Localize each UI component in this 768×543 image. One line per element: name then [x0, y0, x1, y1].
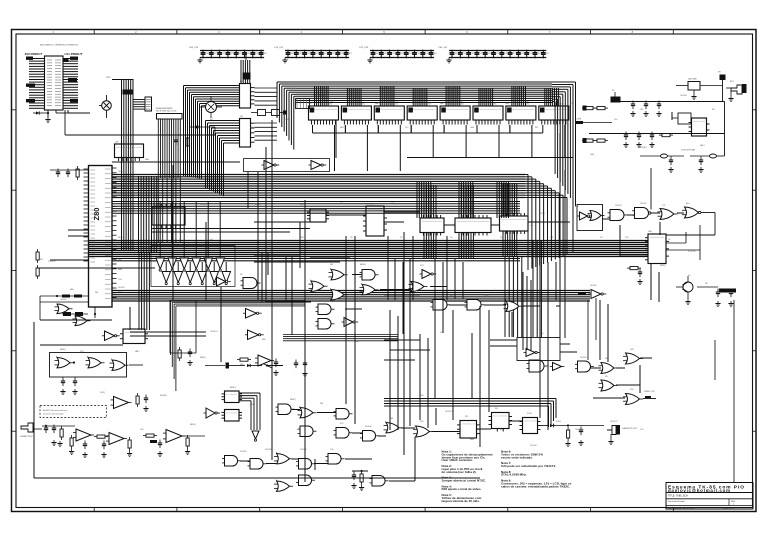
logic gate [274, 481, 293, 492]
svg-text:A15: A15 [450, 294, 453, 297]
svg-text:cabos de cassete: entrada/said: cabos de cassete: entrada/saida padrao T… [501, 484, 570, 488]
svg-text:U20: U20 [430, 214, 433, 216]
svg-text:107: 107 [264, 53, 267, 55]
svg-text:LCD_MODULE: LCD_MODULE [313, 95, 327, 97]
svg-text:C30_C41: C30_C41 [438, 47, 448, 49]
svg-text:103: 103 [401, 53, 404, 55]
timer U31 [120, 329, 148, 344]
svg-text:D6: D6 [240, 274, 242, 276]
wire sync feedback [666, 213, 715, 236]
wire right rails [700, 225, 734, 482]
wire feedback [575, 119, 612, 125]
wire PIO out [666, 232, 700, 253]
svg-text:KB_ROWS_KB_COLS: KB_ROWS_KB_COLS [156, 111, 177, 113]
svg-text:C20: C20 [250, 404, 253, 406]
address bus A0-A15 [112, 175, 567, 271]
net labels extra [48, 95, 716, 447]
svg-text:IORQ: IORQ [484, 295, 489, 297]
inverter U12A [214, 277, 231, 286]
logic gate [360, 431, 379, 442]
connector J5 cassette in [20, 423, 42, 438]
svg-text:CASSETTE OUT: CASSETTE OUT [622, 427, 638, 430]
svg-text:J02 PINOUT: J02 PINOUT [25, 52, 43, 56]
wire osc rail [589, 102, 725, 157]
svg-text:U15: U15 [493, 104, 496, 106]
svg-text:IORQ: IORQ [100, 392, 105, 394]
latch U3 74LS373 [240, 116, 278, 147]
svg-text:Date: Saturday, May 10, 2008: Date: Saturday, May 10, 2008 [668, 506, 695, 509]
diode D3 and filter [538, 424, 605, 447]
svg-text:U19: U19 [625, 237, 628, 239]
decoder U6 74LS138 [363, 204, 387, 237]
svg-text:U14: U14 [460, 104, 463, 106]
svg-text:R29: R29 [420, 421, 423, 423]
op-amp U34A [69, 429, 94, 457]
wire video out [643, 391, 656, 399]
op-amp U34B [94, 433, 132, 458]
svg-text:XTAL 6.5536 MHz.: XTAL 6.5536 MHz. [501, 473, 527, 477]
op-amp U34D [235, 355, 279, 375]
svg-text:D29: D29 [80, 351, 83, 353]
svg-text:106: 106 [425, 53, 428, 55]
svg-text:C06_C13: C06_C13 [189, 47, 199, 49]
wire verticals [130, 112, 672, 482]
svg-text:BUSRQ: BUSRQ [640, 147, 647, 149]
wire +5V rail [611, 101, 725, 103]
transistor Q3 [99, 95, 111, 118]
svg-text:NMI: NMI [240, 364, 244, 366]
svg-text:U10: U10 [329, 104, 332, 106]
power node 9V [718, 72, 726, 81]
svg-text:Document Number:: Document Number: [668, 500, 686, 503]
svg-text:C22_C29: C22_C29 [359, 47, 369, 49]
reset wires [40, 295, 89, 321]
svg-text:107: 107 [349, 53, 352, 55]
svg-text:MREQ: MREQ [660, 265, 666, 267]
svg-text:NMI: NMI [70, 289, 74, 291]
svg-text:D4: D4 [450, 237, 452, 239]
svg-text:74LS32: 74LS32 [240, 451, 247, 453]
decoupling capacitors C22-C29 [359, 47, 437, 63]
gates U29 [55, 304, 91, 326]
svg-text:74LS02: 74LS02 [580, 357, 587, 359]
svg-text:iiiiiiiiiiiiiiiiiiiiiiiiii: iiiiiiiiiiiiiiiiiiiiiiiiii [409, 109, 436, 111]
address bus lower nibble [112, 202, 520, 214]
logic gate [222, 456, 241, 467]
inverter U22A [524, 349, 541, 357]
shift register U9 [500, 213, 534, 234]
wire bundle U7 [424, 185, 436, 258]
svg-text:R34: R34 [630, 389, 633, 391]
svg-text:74LS02: 74LS02 [640, 203, 647, 205]
RAM U11 [341, 88, 378, 171]
svg-text:MREQ: MREQ [190, 424, 196, 426]
gate U22E [599, 363, 618, 374]
logic gate [329, 289, 348, 300]
svg-text:74LS157: 74LS157 [445, 411, 453, 413]
gate U21A [608, 210, 628, 221]
svg-text:IORQ: IORQ [390, 203, 395, 205]
logic U32 gates [50, 353, 144, 378]
logic gate [360, 270, 379, 281]
FF wire mesh [239, 393, 260, 430]
svg-text:ALE/EXT all traces thickness: ALE/EXT all traces thickness [43, 409, 67, 412]
gate U23A [413, 426, 433, 437]
svg-text:74LS32: 74LS32 [300, 449, 307, 451]
svg-text:TO LCD: TO LCD [688, 251, 696, 253]
wire horizontals [40, 162, 684, 481]
notes column 1 [442, 450, 493, 503]
svg-text:107: 107 [513, 53, 516, 55]
gate IC U5 [307, 209, 329, 222]
svg-text:iiiiiiiiiiiiiiiiiiiiiiiiii: iiiiiiiiiiiiiiiiiiiiiiiiii [475, 109, 502, 111]
svg-text:U20 7805: U20 7805 [688, 79, 698, 81]
shift register U8 [455, 215, 491, 236]
svg-text:A14: A14 [300, 203, 303, 206]
svg-text:102: 102 [222, 53, 225, 55]
svg-text:74LS157: 74LS157 [575, 429, 583, 431]
svg-text:LOW CRYSTAL: LOW CRYSTAL [681, 149, 696, 152]
svg-text:111: 111 [546, 53, 549, 55]
title block [666, 483, 753, 510]
RC network [351, 470, 368, 491]
svg-text:C37: C37 [662, 205, 665, 207]
flip-flop U25 [489, 413, 513, 432]
caps C11 C12 [294, 360, 308, 377]
wire bundle to latch [241, 52, 251, 83]
svg-text:104: 104 [409, 53, 412, 55]
decoupling capacitors C6-C13 [189, 47, 267, 63]
label L01 PINOUT [65, 52, 83, 56]
ROM U4 [152, 204, 310, 232]
decoupling capacitors C14-C21 [274, 47, 352, 63]
logic gate [248, 459, 267, 470]
svg-text:iiiiiiiiiiiiiiiiiiiiiiiiii: iiiiiiiiiiiiiiiiiiiiiiiiii [376, 109, 403, 111]
diode D2 network [205, 363, 272, 369]
input RC filter [42, 425, 75, 447]
CPU support parts [50, 166, 89, 180]
svg-text:IORQ: IORQ [556, 421, 561, 423]
svg-text:MREQ: MREQ [118, 237, 124, 239]
svg-text:exceto onde indicado.: exceto onde indicado. [501, 455, 533, 459]
svg-text:U11: U11 [361, 104, 364, 106]
svg-text:iiiiiiiiiiiiiiiiiiiiiiiiiiiii: iiiiiiiiiiiiiiiiiiiiiiiiiiiii [154, 210, 184, 212]
svg-text:R7: R7 [570, 103, 572, 105]
op-amp U34C [143, 430, 205, 457]
resistor R4 [659, 134, 673, 137]
gate U14C [431, 300, 451, 311]
svg-text:100: 100 [376, 53, 379, 55]
logic gate [276, 404, 295, 415]
gate U21D [682, 207, 704, 218]
transistor Q1 [200, 96, 222, 118]
logic gate [298, 407, 317, 418]
net labels [60, 161, 708, 453]
svg-text:105: 105 [332, 53, 335, 55]
svg-text:iiiiiiiiiiiiiiiiiiiiiiii: iiiiiiiiiiiiiiiiiiiiiiii [502, 219, 527, 221]
svg-text:C14_C21: C14_C21 [274, 47, 284, 49]
gate U14E [504, 301, 523, 312]
wire bundle to mixer [505, 240, 659, 337]
RAM U13 [407, 88, 444, 158]
ram control drop [459, 181, 473, 218]
svg-text:U35: U35 [115, 142, 118, 144]
svg-text:A10: A10 [686, 202, 689, 205]
svg-text:Sheet 1 of 1: Sheet 1 of 1 [723, 506, 735, 509]
svg-text:BUSRQ: BUSRQ [160, 395, 167, 397]
svg-text:iiiiiiiiiiiiii: iiiiiiiiiiiiii [368, 209, 383, 211]
svg-text:109: 109 [529, 53, 532, 55]
svg-text:103: 103 [480, 53, 483, 55]
svg-text:+C: +C [530, 225, 533, 227]
svg-text:102: 102 [307, 53, 310, 55]
IC U35 [115, 142, 144, 162]
svg-text:103: 103 [231, 53, 234, 55]
logic gate [296, 459, 315, 470]
svg-text:PWR: PWR [106, 77, 111, 79]
gate U12B [241, 278, 261, 289]
output filter [697, 287, 736, 306]
voltage regulator U20 [676, 79, 723, 102]
gate U22H [623, 394, 643, 405]
svg-text:74LS32: 74LS32 [615, 205, 622, 207]
svg-text:74LS32: 74LS32 [505, 212, 512, 214]
svg-text:MREQ: MREQ [360, 264, 366, 266]
svg-text:102: 102 [471, 53, 474, 55]
svg-text:iiiiiiiiii: iiiiiiiiii [227, 394, 238, 396]
caps C8 C9 [60, 378, 77, 395]
svg-text:110: 110 [538, 53, 541, 55]
svg-text:105: 105 [496, 53, 499, 55]
svg-text:74LS138: 74LS138 [366, 204, 375, 206]
RAM U16 [506, 86, 543, 158]
inverter U16 [578, 290, 606, 299]
logic gate [316, 304, 335, 315]
svg-text:104: 104 [488, 53, 491, 55]
svg-text:D4: D4 [210, 239, 212, 241]
wire bundle mid [283, 300, 398, 341]
svg-text:74LS00: 74LS00 [680, 95, 687, 97]
svg-text:R40: R40 [300, 237, 303, 239]
logic gate [316, 319, 335, 330]
svg-text:D2: D2 [688, 275, 690, 277]
CPU U1 Z80 [84, 166, 117, 308]
capacitors C5-C7 [623, 132, 654, 148]
keyboard diode-driver array [151, 202, 235, 287]
svg-text:C12: C12 [405, 127, 408, 129]
svg-text:108: 108 [521, 53, 524, 55]
svg-text:R15: R15 [465, 416, 468, 418]
svg-text:C40: C40 [330, 449, 333, 451]
inverter U30 [102, 331, 120, 341]
logic gate [298, 426, 317, 437]
logic gate [326, 454, 345, 465]
gate U22D [575, 361, 594, 372]
svg-text:U16: U16 [526, 104, 529, 106]
keyboard ribbon connector [156, 107, 182, 243]
svg-text:100: 100 [455, 53, 458, 55]
svg-text:101: 101 [463, 53, 466, 55]
svg-text:iiiiiiiiiiiiiiiiiiiiiiiiiiiiii: iiiiiiiiiiiiiiiiiiiiiiiiiiiiiiii [457, 221, 490, 223]
wire loop inner [170, 300, 196, 353]
wire loop outer [34, 306, 480, 478]
svg-text:iiiiiiiiiiiii: iiiiiiiiiiiii [493, 416, 507, 418]
svg-text:D7: D7 [400, 237, 402, 239]
svg-text:iiiiiiiiiiiiiiiiiiiiiiiiii: iiiiiiiiiiiiiiiiiiiiiiiiii [343, 109, 370, 111]
svg-text:iiiiiiiiiii: iiiiiiiiiii [694, 121, 706, 123]
svg-text:iiiiiiiiiiii: iiiiiiiiiiii [462, 424, 475, 426]
data bus D0-D7 [89, 241, 649, 261]
svg-text:R23 ajusta o nivel de video.: R23 ajusta o nivel de video. [442, 487, 482, 491]
svg-text:Usar 100nF ceramico.: Usar 100nF ceramico. [442, 458, 474, 462]
logic gate [334, 409, 353, 420]
video mixer gates [577, 205, 605, 231]
svg-text:iiiiiiiiiiiiiiiiiiiiiiiiii: iiiiiiiiiiiiiiiiiiiiiiiiii [442, 109, 469, 111]
notes column 2 [501, 450, 572, 489]
svg-text:74LS02: 74LS02 [365, 426, 372, 428]
logic gate [329, 269, 348, 280]
svg-text:R40: R40 [420, 395, 423, 397]
svg-text:103: 103 [316, 53, 319, 55]
svg-text:105: 105 [417, 53, 420, 55]
RAM U10 [309, 86, 346, 171]
inverter U15A [243, 309, 262, 319]
battery BT1 [726, 81, 747, 101]
svg-text:104: 104 [324, 53, 327, 55]
gate U22G [623, 353, 643, 364]
resistors R5 R6 [582, 138, 608, 143]
svg-text:C34: C34 [118, 279, 121, 281]
svg-text:U28: U28 [630, 349, 633, 351]
transistor Q2 [676, 276, 693, 304]
svg-text:CASSETTE IN: CASSETTE IN [20, 435, 33, 438]
svg-text:U17: U17 [559, 104, 562, 106]
edge connector J1 [26, 56, 78, 110]
svg-text:107: 107 [434, 53, 437, 55]
op-amp U33 [111, 393, 149, 411]
resistors R2 R3 [582, 106, 608, 111]
svg-text:IORQ: IORQ [540, 213, 545, 215]
label J02 PINOUT [25, 52, 43, 56]
PIO support parts [620, 239, 671, 284]
wire bundle lower [384, 399, 556, 428]
address fan-out to latches [184, 86, 240, 197]
svg-text:NMI: NMI [118, 259, 122, 261]
capacitors C2-C4 [630, 101, 661, 117]
svg-text:R13: R13 [340, 423, 343, 425]
svg-text:U24 pode ser substituido por 7: U24 pode ser substituido por 74HC74. [501, 464, 556, 468]
svg-text:MREQ: MREQ [230, 387, 236, 389]
RC parts [178, 347, 193, 365]
svg-text:TITLE: TK85_SCH: TITLE: TK85_SCH [668, 495, 688, 498]
svg-text:102: 102 [392, 53, 395, 55]
wire video return [37, 110, 215, 268]
svg-text:REV:: REV: [731, 501, 736, 503]
gate U28B [252, 431, 259, 441]
svg-text:101: 101 [214, 53, 217, 55]
svg-text:105: 105 [247, 53, 250, 55]
svg-text:74LS32: 74LS32 [590, 285, 597, 287]
connector J4 cassette [607, 425, 638, 444]
svg-text:106: 106 [255, 53, 258, 55]
svg-text:D3: D3 [350, 237, 352, 239]
svg-text:U12: U12 [394, 104, 397, 106]
flip-flop U24 [457, 421, 480, 439]
logic gate [360, 284, 379, 295]
svg-text:VIDEO OUT: VIDEO OUT [644, 391, 656, 393]
logic gate [309, 281, 328, 292]
svg-text:MREQ: MREQ [465, 214, 471, 216]
RAM select wires [407, 133, 573, 252]
wire bundle U8 [459, 185, 473, 258]
inverter U13 [342, 318, 359, 327]
control bus [112, 291, 590, 302]
svg-text:101: 101 [299, 53, 302, 55]
svg-text:74LS02: 74LS02 [200, 204, 207, 206]
svg-text:74LS32: 74LS32 [118, 287, 125, 289]
memory data-address bus [277, 82, 576, 206]
svg-text:iiiiiiiiiiii: iiiiiiiiiiii [312, 212, 325, 214]
svg-text:iiiiiiiiiiiiiiiiiiiiiiiii: iiiiiiiiiiiiiiiiiiiiiiiii [117, 147, 143, 149]
svg-text:C19: C19 [118, 291, 121, 293]
svg-text:iiiiiiiiiiiiiiiiiiiiiiiiii: iiiiiiiiiiiiiiiiiiiiiiiiii [541, 109, 568, 111]
logic gate [274, 453, 293, 464]
svg-text:74LS02: 74LS02 [265, 449, 272, 451]
svg-text:74LS02: 74LS02 [60, 299, 67, 301]
svg-text:A29: A29 [118, 245, 121, 248]
svg-text:NMI: NMI [340, 127, 344, 129]
wire loop bundle [171, 301, 306, 392]
svg-text:C_FBK: C_FBK [575, 119, 582, 121]
wire clk down [611, 96, 651, 210]
resistors R9 R10 [36, 249, 43, 279]
RAM U14 [440, 86, 477, 158]
svg-text:MREQ: MREQ [290, 399, 296, 401]
connector ground return [33, 110, 68, 122]
svg-text:danjovic@hotmail.com: danjovic@hotmail.com [668, 488, 730, 493]
data wire bundle [139, 176, 157, 252]
svg-text:KB ADDRESSING: KB ADDRESSING [156, 107, 173, 110]
svg-text:104: 104 [239, 53, 242, 55]
latch U2 74LS373 [240, 81, 278, 108]
svg-text:do sistema (ver folha 2).: do sistema (ver folha 2). [442, 470, 477, 474]
svg-text:U13: U13 [500, 237, 503, 239]
inverter U14A [420, 270, 437, 279]
svg-text:MREQ: MREQ [60, 349, 66, 351]
svg-text:iiiiiiiiiiiiiiiiiiiiiiiiii: iiiiiiiiiiiiiiiiiiiiiiiiii [311, 109, 338, 111]
svg-text:106: 106 [504, 53, 507, 55]
crystal X1 [611, 90, 621, 103]
ram control drop [417, 181, 431, 218]
RAM U12 [374, 86, 411, 171]
svg-text:74LS00: 74LS00 [530, 445, 537, 447]
gate U22F [599, 380, 618, 391]
buffer U22C [550, 363, 565, 371]
gate U14D [465, 300, 485, 311]
svg-text:100: 100 [291, 53, 294, 55]
svg-text:74LS32: 74LS32 [118, 171, 125, 173]
svg-text:Jumper aberto p/ cristal NTSC.: Jumper aberto p/ cristal NTSC. [442, 479, 487, 483]
decoupling capacitors C30-C41 [438, 47, 549, 63]
flip-flop U19 [672, 113, 710, 136]
control wire bundle [106, 77, 134, 250]
svg-text:U13: U13 [427, 104, 430, 106]
svg-text:74LS157: 74LS157 [48, 261, 56, 263]
svg-text:74LS157: 74LS157 [210, 331, 218, 333]
svg-text:U26: U26 [140, 429, 143, 431]
LCD header J3 [296, 95, 328, 109]
svg-text:C16: C16 [640, 429, 643, 431]
